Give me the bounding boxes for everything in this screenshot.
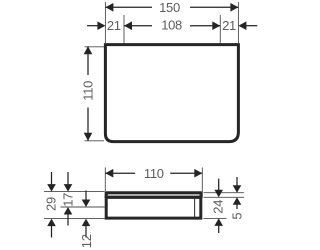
dimension 5 — [230, 177, 245, 220]
svg-text:5: 5 — [230, 213, 245, 220]
side view glass plate — [106, 193, 201, 197]
dimension 12 — [79, 191, 94, 249]
dimension 21 left — [87, 18, 121, 33]
svg-text:21: 21 — [107, 18, 121, 33]
extension line bottom-left of 110 — [85, 140, 105, 142]
extension line x220 — [219, 15, 221, 43]
dimension 29 — [43, 172, 58, 238]
svg-text:110: 110 — [144, 166, 164, 181]
dimension 17 — [60, 172, 75, 226]
extension line right y218.4 — [204, 217, 227, 219]
extension line top-left of 110 — [85, 46, 105, 48]
svg-text:150: 150 — [159, 0, 180, 15]
svg-text:110: 110 — [80, 81, 95, 101]
extension line right y197.3 — [204, 196, 245, 198]
side view body — [106, 197, 201, 218]
extension line right x202 bottom view — [201, 167, 203, 197]
svg-text:12: 12 — [79, 234, 94, 248]
svg-text:21: 21 — [222, 18, 236, 33]
extension line left x105 — [104, 2, 106, 43]
svg-text:29: 29 — [43, 197, 58, 211]
svg-text:17: 17 — [60, 193, 75, 207]
extension line x124 — [123, 15, 125, 43]
dimension 110 over side view — [105, 166, 202, 181]
dimension 110 left side of front view — [80, 46, 95, 140]
svg-text:24: 24 — [210, 200, 225, 214]
front view outline — [105, 45, 238, 142]
extension line left y207 — [61, 206, 105, 208]
svg-text:108: 108 — [161, 18, 182, 33]
dimension 24 — [210, 179, 225, 233]
extension line right x238 — [237, 2, 239, 43]
dimension 150 — [105, 0, 238, 15]
extension line left y218.6 — [44, 218, 105, 220]
dimension 21 right — [222, 18, 257, 33]
extension line right y192.7 — [204, 192, 245, 194]
side view inner edge line — [194, 199, 196, 217]
extension line left x105 bottom view — [104, 167, 106, 191]
extension line left y191.6 — [44, 191, 105, 193]
dimension 108 — [124, 18, 220, 33]
